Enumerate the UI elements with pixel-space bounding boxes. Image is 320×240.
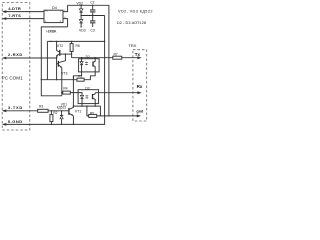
wire gnd line: [87, 106, 89, 116]
capacitor C2: [92, 5, 94, 9]
svg-text:TRX: TRX: [128, 43, 136, 48]
svg-text:D2: D2: [86, 55, 90, 59]
svg-text:VD2, VD3 КД522: VD2, VD3 КД522: [118, 9, 153, 13]
svg-text:D4: D4: [52, 6, 57, 10]
resistor R6: [70, 44, 73, 52]
svg-text:C3: C3: [90, 28, 94, 32]
wire 2-RXD: [3, 57, 56, 59]
wire R6 feed (y41.4): [47, 40, 104, 42]
svg-text:R5: R5: [90, 112, 94, 116]
resistor R7: [113, 56, 122, 59]
arrows into PC COM connector: [2, 10, 6, 13]
wire IC right bottom pin to minus bus: [63, 19, 68, 27]
svg-text:R6: R6: [76, 44, 80, 48]
wire 5-GND rail: [3, 16, 104, 125]
svg-text:КД522: КД522: [57, 105, 67, 109]
svg-text:R3: R3: [39, 104, 43, 108]
transistor VT1: [68, 108, 70, 115]
wire vert x47.4: [46, 41, 48, 79]
svg-text:R2: R2: [53, 111, 57, 115]
wire Rx line: [95, 92, 138, 94]
opto D3 LED: [80, 95, 83, 98]
resistor R2: [50, 115, 53, 122]
TRX dashed enclosure: [133, 50, 147, 121]
emitter rail under optos: [73, 105, 100, 107]
resistor R1: [77, 78, 84, 81]
capacitor C3: [92, 16, 94, 21]
svg-text:VD3: VD3: [79, 29, 86, 33]
optocoupler D2 box: [79, 59, 100, 72]
svg-text:2-RXD: 2-RXD: [8, 52, 22, 57]
opto D2 light arrows: [85, 62, 87, 64]
svg-text:7-RTS: 7-RTS: [8, 13, 21, 18]
svg-text:PC COM1: PC COM1: [2, 75, 23, 80]
resistor R3: [38, 109, 48, 112]
svg-text:VT1: VT1: [75, 109, 81, 113]
wire minus bus: [41, 27, 67, 96]
svg-text:Tx: Tx: [135, 52, 141, 57]
opto D2 phototransistor: [92, 61, 94, 66]
PC COM dashed enclosure: [2, 3, 30, 130]
resistor R4: [63, 91, 71, 94]
svg-text:3-TXD: 3-TXD: [8, 105, 22, 110]
opto D3 phototransistor: [92, 94, 94, 99]
wire R1 rail (y79.7): [41, 79, 77, 81]
svg-text:HC4066A: HC4066A: [46, 29, 57, 33]
svg-text:VT3: VT3: [61, 72, 67, 76]
svg-text:D2 - D3 АОТ128: D2 - D3 АОТ128: [117, 21, 146, 25]
svg-text:D3: D3: [85, 86, 89, 90]
diode VD1: [61, 111, 63, 116]
opto D3 light arrows: [85, 95, 87, 97]
svg-text:gnd: gnd: [136, 110, 144, 114]
svg-text:VD2: VD2: [76, 1, 83, 5]
wire TXD to VT1 base: [48, 110, 69, 112]
opto D2 LED: [81, 58, 83, 62]
svg-text:C2: C2: [90, 0, 94, 4]
diode VD3: [80, 16, 82, 20]
wire 7-RTS (pin7 to IC): [3, 18, 44, 20]
node dots top section: [80, 5, 81, 6]
svg-text:5-GND: 5-GND: [8, 119, 22, 124]
wire 3-TXD to R3: [3, 110, 38, 112]
svg-text:R4: R4: [63, 87, 67, 91]
wire top bus: [68, 5, 109, 116]
wire IC right top pin to top bus: [63, 5, 68, 11]
wire 4-DTR (pin4 to IC): [3, 11, 44, 13]
transistor VT2: [56, 41, 58, 50]
wire R4 / opto D3 LED feed: [62, 92, 63, 94]
svg-text:4-DTR: 4-DTR: [8, 6, 21, 11]
wire mid rail (line A): [81, 15, 105, 17]
svg-text:VT2: VT2: [57, 44, 63, 48]
wire Tx line: [72, 57, 113, 59]
diode VD2: [80, 5, 82, 9]
IC D4 body: [44, 10, 63, 22]
svg-text:R7: R7: [114, 52, 118, 56]
svg-text:R1: R1: [78, 75, 82, 79]
optocoupler D3 box: [78, 90, 99, 104]
svg-text:Rx: Rx: [137, 84, 143, 89]
resistor R5: [89, 114, 97, 117]
transistor VT3: [57, 61, 59, 67]
